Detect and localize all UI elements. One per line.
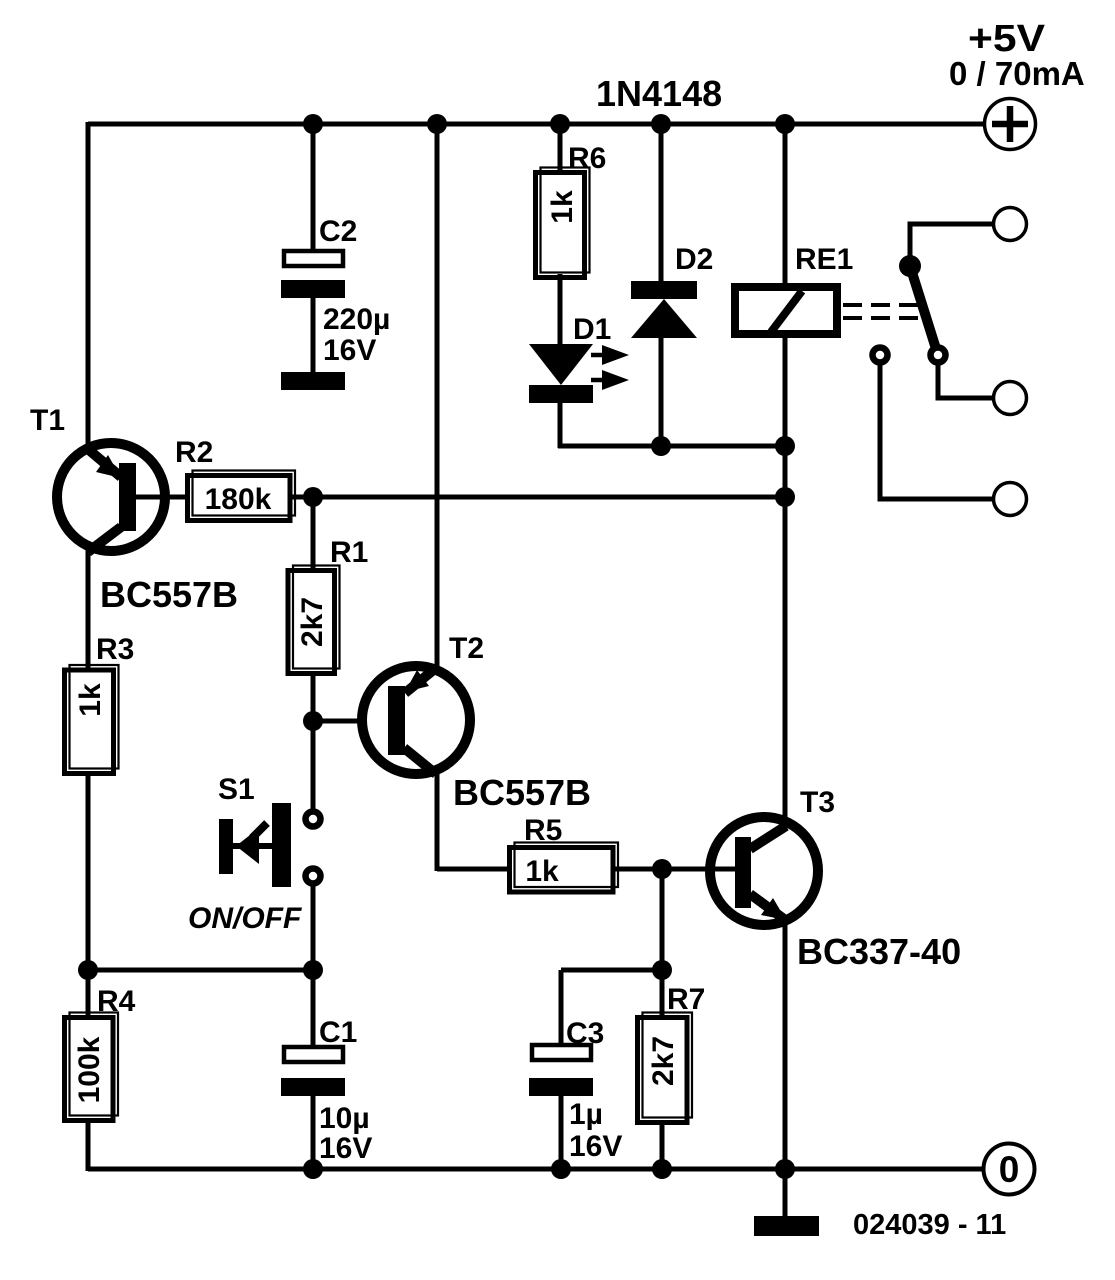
node T3-bottom rail bbox=[775, 1159, 795, 1179]
svg-text:S1: S1 bbox=[218, 773, 255, 806]
wire T2 collector down bbox=[435, 772, 440, 871]
wire left column top (T1 emitter to rail) bbox=[86, 122, 91, 447]
wire T2 collector to R5 bbox=[437, 867, 509, 872]
wire R2 to relay column bbox=[290, 495, 785, 500]
svg-text:1k: 1k bbox=[525, 855, 559, 888]
wire left column R4 to bottom rail bbox=[86, 1121, 91, 1171]
wire C2 top bbox=[311, 124, 316, 251]
node S1-C1 bbox=[303, 960, 323, 980]
terminal 0 bbox=[984, 1144, 1035, 1195]
terminal contact top bbox=[994, 208, 1027, 241]
svg-text:024039 - 11: 024039 - 11 bbox=[853, 1209, 1006, 1241]
svg-text:1k: 1k bbox=[74, 683, 107, 717]
wire D2 top bbox=[659, 124, 664, 283]
svg-text:R2: R2 bbox=[175, 436, 213, 469]
node R5-R7 bbox=[652, 859, 672, 879]
node left column y970 bbox=[78, 960, 98, 980]
svg-text:C3: C3 bbox=[566, 1017, 604, 1050]
wire R7 top bbox=[660, 970, 665, 1020]
wire left contact to bottom terminal bbox=[880, 364, 994, 499]
node relay-T3 collector line bbox=[775, 487, 795, 507]
node 5V-D2 bbox=[651, 114, 671, 134]
svg-text:180k: 180k bbox=[205, 483, 272, 516]
wire C1 top bbox=[311, 970, 316, 1047]
wire R1 top bbox=[311, 497, 316, 570]
resistor R3 1k bbox=[65, 665, 119, 774]
diode D2 1N4148 bbox=[631, 281, 697, 338]
svg-text:16V: 16V bbox=[323, 334, 376, 367]
resistor R1 2k7 bbox=[288, 566, 340, 674]
svg-text:220µ: 220µ bbox=[323, 303, 390, 336]
svg-text:+5V: +5V bbox=[968, 18, 1046, 60]
node D2-row bbox=[651, 436, 671, 456]
node C3-R7 bbox=[652, 960, 672, 980]
svg-text:RE1: RE1 bbox=[795, 243, 853, 276]
wire D1/D2/RE1 bottom row bbox=[558, 444, 785, 449]
wire R7 bottom bbox=[660, 1121, 665, 1171]
svg-text:1µ: 1µ bbox=[569, 1098, 603, 1131]
wire top rail +5V bbox=[88, 122, 983, 127]
resistor R2 180k bbox=[188, 471, 296, 521]
svg-text:D2: D2 bbox=[675, 243, 713, 276]
wire ground stub bbox=[783, 1169, 788, 1218]
node 5V-RE1 bbox=[775, 114, 795, 134]
svg-text:BC557B: BC557B bbox=[453, 772, 591, 813]
wire RE1 top bbox=[783, 124, 788, 287]
capacitor C1 bbox=[281, 1047, 345, 1171]
ground (main) bbox=[754, 1216, 819, 1236]
wire T3 emitter to bottom rail bbox=[783, 921, 788, 1171]
node 5V-R6 bbox=[550, 114, 570, 134]
wire left column R3 to R4 bbox=[86, 774, 91, 1018]
wire C3 branch horizontal bbox=[561, 968, 662, 973]
relay contact left bbox=[873, 348, 888, 363]
wire R6 to D1 bbox=[558, 274, 563, 346]
node RE1-row bbox=[775, 436, 795, 456]
wire R5 to T3 base bbox=[613, 867, 737, 872]
relay switch arm bbox=[910, 266, 937, 352]
svg-text:C1: C1 bbox=[319, 1016, 357, 1049]
terminal contact bottom bbox=[994, 483, 1027, 516]
svg-text:100k: 100k bbox=[73, 1036, 106, 1103]
transistor T1 BC557B bbox=[57, 443, 165, 552]
resistor R7 2k7 bbox=[638, 1013, 693, 1123]
svg-text:ON/OFF: ON/OFF bbox=[188, 902, 302, 935]
wire node to S1 bbox=[311, 721, 316, 810]
node R2-R1 bbox=[303, 487, 323, 507]
terminal +5V bbox=[985, 99, 1036, 150]
wire R1 bottom to base node bbox=[311, 674, 316, 721]
wire D2 bottom bbox=[659, 338, 664, 448]
wire bottom rail (ground) bbox=[88, 1167, 984, 1172]
svg-text:D1: D1 bbox=[573, 313, 611, 346]
svg-text:T1: T1 bbox=[30, 404, 65, 437]
pushbutton S1 bbox=[219, 803, 321, 887]
resistor R6 1k bbox=[536, 168, 590, 278]
wire node to C3/R7 node bbox=[660, 869, 665, 970]
svg-text:0: 0 bbox=[999, 1149, 1020, 1190]
svg-text:2k7: 2k7 bbox=[296, 597, 329, 647]
node 5V-T2 bbox=[427, 114, 447, 134]
svg-text:1N4148: 1N4148 bbox=[596, 73, 722, 114]
node C1-bottom rail bbox=[303, 1159, 323, 1179]
wire D1 bottom bbox=[558, 403, 563, 448]
relay RE1 bbox=[735, 287, 837, 334]
svg-text:R3: R3 bbox=[96, 633, 134, 666]
capacitor C2 bbox=[281, 251, 345, 372]
svg-text:T2: T2 bbox=[449, 632, 484, 665]
wire left column T1 collector to R3 bbox=[86, 548, 91, 670]
capacitor C3 bbox=[529, 1045, 593, 1171]
wire R3/R4 node to S1/C1 node bbox=[88, 968, 313, 973]
svg-text:0 / 70mA: 0 / 70mA bbox=[949, 55, 1085, 92]
wire T2 emitter to rail bbox=[435, 124, 440, 668]
svg-text:1k: 1k bbox=[546, 190, 579, 224]
wire C3 top bbox=[559, 970, 564, 1045]
svg-text:C2: C2 bbox=[319, 215, 357, 248]
resistor R5 1k bbox=[510, 843, 619, 893]
wire RE1 bottom to T3 collector bbox=[783, 338, 788, 820]
ground (below C2) bbox=[281, 372, 345, 390]
node R1-T2 base-S1 bbox=[303, 711, 323, 731]
terminal contact mid bbox=[994, 382, 1027, 415]
relay switch contact pivot bbox=[899, 255, 921, 277]
svg-text:BC337-40: BC337-40 bbox=[797, 931, 961, 972]
svg-text:BC557B: BC557B bbox=[100, 574, 238, 615]
transistor T2 BC557B bbox=[362, 666, 470, 774]
svg-text:16V: 16V bbox=[319, 1132, 372, 1165]
resistor R4 100k bbox=[65, 1013, 119, 1121]
transistor T3 BC337-40 bbox=[710, 817, 818, 925]
svg-text:16V: 16V bbox=[569, 1130, 622, 1163]
wire S1 bottom to C1 node bbox=[311, 885, 316, 972]
svg-text:R6: R6 bbox=[568, 142, 606, 175]
svg-text:R1: R1 bbox=[330, 536, 368, 569]
svg-text:10µ: 10µ bbox=[319, 1102, 370, 1135]
wire T1 base to R2 bbox=[136, 495, 186, 500]
relay actuator dashed links bbox=[843, 305, 918, 318]
node 5V-C2 bbox=[303, 114, 323, 134]
node C3-bottom rail bbox=[551, 1159, 571, 1179]
diode D1 LED bbox=[529, 344, 629, 403]
wire pivot to top terminal bbox=[910, 224, 994, 266]
svg-text:R7: R7 bbox=[667, 983, 705, 1016]
relay contact right bbox=[931, 348, 946, 363]
wire R6 top bbox=[558, 124, 563, 172]
svg-text:R4: R4 bbox=[97, 985, 136, 1018]
wire T2 base bbox=[313, 719, 390, 724]
svg-text:2k7: 2k7 bbox=[647, 1036, 680, 1086]
wire right contact to mid terminal bbox=[938, 364, 994, 398]
node R7-bottom rail bbox=[652, 1159, 672, 1179]
svg-text:R5: R5 bbox=[524, 814, 562, 847]
svg-text:T3: T3 bbox=[800, 786, 835, 819]
